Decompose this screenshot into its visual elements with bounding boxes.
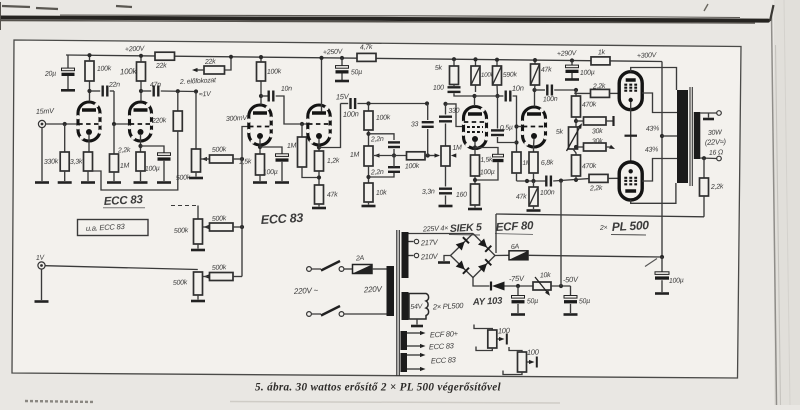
- wire screen tap lower 43%: [642, 159, 677, 182]
- svg-text:22n: 22n: [108, 81, 121, 89]
- capacitor 22n coupling: [87, 89, 91, 93]
- resistor 2,2k upper grid stopper: [575, 90, 591, 93]
- svg-text:50µ: 50µ: [579, 298, 591, 306]
- ground 54V box: [416, 319, 418, 325]
- wire cathode tap to 15V node: [319, 104, 341, 148]
- output transformer core: [689, 87, 691, 186]
- fuse 2A: [353, 265, 373, 274]
- svg-text:220k: 220k: [151, 117, 167, 125]
- svg-text:47k: 47k: [327, 191, 339, 199]
- svg-text:2,2n: 2,2n: [370, 136, 384, 144]
- svg-text:50µ: 50µ: [527, 298, 539, 306]
- wire mixer bus to V2a grid: [242, 127, 249, 277]
- resistor 1M grid leak V4: [512, 152, 521, 173]
- ground at output: [708, 113, 710, 118]
- svg-text:500k: 500k: [212, 264, 227, 272]
- svg-text:5. ábra. 30 wattos erősítő 2 ×: 5. ábra. 30 wattos erősítő 2 × PL 500 vé…: [255, 381, 502, 393]
- resistor 5k screen feed: [452, 57, 456, 61]
- svg-text:100µ: 100µ: [480, 169, 495, 177]
- svg-text:3,3n: 3,3n: [422, 188, 435, 196]
- resistor 1k (supply dropper): [591, 57, 610, 65]
- capacitor 2,2n treble lower: [369, 172, 395, 178]
- svg-text:47k: 47k: [541, 66, 553, 74]
- svg-text:10n: 10n: [512, 83, 524, 93]
- svg-text:20µ: 20µ: [44, 70, 57, 78]
- svg-text:100k: 100k: [120, 67, 138, 77]
- input terminal 15mV: [38, 120, 45, 127]
- resistor 470k lower: [573, 149, 576, 155]
- svg-text:217V: 217V: [420, 238, 439, 248]
- svg-text:-50V: -50V: [563, 275, 580, 285]
- triode V2b ECC83 cathode follower: [308, 105, 330, 145]
- fuse 6A: [509, 251, 528, 260]
- wire V6 anode to transformer: [631, 183, 676, 203]
- wire 6A fuse to reservoir: [528, 255, 662, 257]
- svg-text:220V ~: 220V ~: [293, 286, 319, 296]
- svg-text:100: 100: [433, 84, 445, 92]
- svg-text:50µ: 50µ: [351, 69, 363, 77]
- svg-text:22k: 22k: [204, 58, 217, 66]
- svg-text:500k: 500k: [173, 279, 188, 287]
- resistor 2,2k cathode V1b: [136, 152, 145, 171]
- svg-text:0,5µ: 0,5µ: [500, 124, 513, 132]
- wire V4 cathode: [533, 139, 536, 152]
- resistor 22k (supply dropper): [155, 52, 175, 60]
- wire V1a anode up: [89, 81, 91, 101]
- svg-text:30k: 30k: [592, 128, 604, 136]
- wire V4 grid: [517, 126, 522, 128]
- svg-text:100n: 100n: [343, 109, 359, 119]
- resistor 30k lower with arrow: [576, 146, 584, 148]
- capacitor 100 screen bypass: [453, 85, 455, 87]
- wire tone out to V3 grid: [446, 104, 464, 127]
- svg-text:10k: 10k: [376, 189, 388, 197]
- svg-text:(22V≈): (22V≈): [705, 137, 727, 147]
- svg-text:16 Ω: 16 Ω: [709, 149, 724, 157]
- resistor 2,2k feedback: [703, 158, 705, 178]
- capacitor 50u bias 1: [517, 286, 519, 296]
- mains switch upper: [307, 267, 312, 272]
- page right edge shadow: [774, 0, 800, 405]
- resistor 3,3k cathode V1a: [84, 152, 93, 171]
- junction HT: [660, 255, 664, 259]
- top-left margin marks: [2, 6, 132, 9]
- wire V1a cathode to 3,3k: [88, 134, 90, 152]
- svg-text:33: 33: [411, 121, 419, 128]
- capacitor 47n coupling: [139, 89, 143, 93]
- svg-text:1M: 1M: [350, 152, 360, 159]
- svg-text:100n: 100n: [543, 96, 558, 104]
- svg-text:160: 160: [456, 191, 468, 199]
- capacitor 10n to V4 grid: [498, 95, 504, 97]
- mains transformer primary winding: [387, 266, 395, 316]
- svg-text:470k: 470k: [582, 101, 597, 109]
- svg-text:100k: 100k: [97, 65, 112, 73]
- capacitor 100u on +290V rail: [570, 58, 574, 62]
- resistor 500k #3 to bus: [210, 273, 234, 281]
- svg-text:300mV: 300mV: [226, 115, 249, 123]
- pentode V5 PL500 upper: [619, 72, 642, 110]
- svg-text:2×: 2×: [599, 225, 608, 232]
- capacitor 50u bias 2: [570, 286, 572, 296]
- wire V5 anode to transformer: [631, 68, 677, 91]
- svg-text:100µ: 100µ: [263, 169, 278, 177]
- svg-text:AY 103: AY 103: [472, 295, 504, 308]
- svg-text:1,5k: 1,5k: [480, 156, 493, 164]
- svg-text:3,3k: 3,3k: [70, 158, 83, 166]
- wire 22n to V1b grid: [114, 91, 129, 124]
- resistor 10k: [364, 183, 373, 202]
- svg-text:100k: 100k: [405, 163, 420, 171]
- svg-text:210V: 210V: [420, 252, 439, 262]
- svg-text:10k: 10k: [540, 272, 552, 280]
- wire V2a anode up: [260, 81, 262, 105]
- capacitor 3,3n: [445, 166, 447, 187]
- svg-text:5k: 5k: [435, 65, 443, 72]
- svg-text:1M: 1M: [452, 145, 462, 152]
- svg-text:43%: 43%: [645, 146, 659, 154]
- diode bridge bottom-left: [456, 261, 465, 270]
- resistor 100k anode load V1b: [137, 62, 146, 81]
- potentiometer 500k #3: [194, 272, 203, 295]
- potentiometer 1M tone: [364, 146, 373, 166]
- wire +200V..+300V top supply rail: [66, 55, 662, 62]
- svg-text:+200V: +200V: [125, 45, 146, 53]
- resistor 30k upper with stub: [576, 120, 584, 122]
- svg-text:1M: 1M: [120, 163, 130, 170]
- svg-text:100n: 100n: [540, 189, 555, 197]
- resistor 100k anode load V3 (hatched): [475, 59, 477, 66]
- svg-text:30W: 30W: [708, 129, 724, 137]
- wire input to V1 grid: [46, 123, 77, 125]
- resistor 500k #1 to bus: [210, 155, 234, 163]
- resistor 100k tone: [368, 104, 370, 112]
- resistor 100k wiper link: [374, 155, 406, 157]
- pentode V6 PL500 lower (inverted): [619, 162, 642, 200]
- svg-text:6,8k: 6,8k: [541, 159, 554, 167]
- svg-text:220V: 220V: [363, 285, 383, 295]
- svg-text:1,2k: 1,2k: [327, 157, 340, 165]
- wire V5 cathode down: [630, 102, 632, 163]
- wire secondary bottom to output terminal: [700, 157, 716, 160]
- box u.a. ECC 83: [78, 220, 149, 236]
- svg-text:100k: 100k: [267, 68, 282, 76]
- scan streak top: [0, 18, 768, 21]
- cathode junction bar: [625, 135, 638, 137]
- wire V4 anode up: [534, 90, 536, 107]
- stray stroke: [645, 259, 657, 267]
- capacitor 100u reservoir: [661, 257, 663, 272]
- svg-text:SIEK 5: SIEK 5: [450, 221, 483, 235]
- svg-text:1M: 1M: [287, 143, 297, 150]
- capacitor 100u cathode bypass V1b: [141, 146, 165, 154]
- svg-text:2A: 2A: [355, 255, 365, 262]
- svg-text:1,5k: 1,5k: [239, 158, 252, 166]
- svg-text:22k: 22k: [155, 62, 168, 70]
- svg-text:15V: 15V: [336, 92, 350, 102]
- svg-text:2,2k: 2,2k: [710, 183, 724, 191]
- potentiometer 10k bias: [533, 282, 551, 290]
- capacitor 10n coupling: [261, 95, 269, 97]
- svg-text:2,2k: 2,2k: [592, 83, 606, 91]
- wire V2a cathode: [259, 139, 261, 154]
- resistor 47k (hatched) to ground: [533, 181, 535, 187]
- capacitor 100n coupling from cathode: [341, 103, 349, 105]
- bridge rectifier SIEK5 diamond: [451, 234, 496, 278]
- svg-text:100µ: 100µ: [669, 277, 684, 285]
- svg-text:2,2n: 2,2n: [370, 169, 384, 177]
- output transformer primary winding: [677, 90, 688, 183]
- diode bridge top-right: [478, 239, 487, 248]
- svg-text:47k: 47k: [516, 193, 528, 201]
- wire V2b cathode node: [318, 139, 320, 151]
- svg-text:+300V: +300V: [637, 52, 658, 60]
- svg-text:ECC 83: ECC 83: [429, 341, 455, 351]
- resistor 4,7k (supply dropper): [357, 53, 376, 61]
- wire switch lower to primary: [344, 313, 387, 315]
- wire switch to fuse: [344, 268, 353, 270]
- wire fuse to primary: [372, 268, 387, 270]
- potentiometer 5k balance: [569, 127, 578, 149]
- capacitor 50u on +250V rail: [340, 56, 344, 60]
- wire feed to 2nd preamp with arrow: [225, 57, 232, 70]
- capacitor 100n coupling to upper PL500: [535, 89, 546, 91]
- svg-text:330k: 330k: [44, 158, 59, 166]
- capacitor 33: [427, 104, 429, 121]
- resistor 470k upper: [575, 90, 577, 96]
- wire input2 to pot3: [45, 266, 198, 270]
- wire anode node: [475, 95, 498, 97]
- humdinger resistor 100 #1: [474, 325, 492, 331]
- svg-text:2× PL500: 2× PL500: [432, 301, 465, 312]
- output transformer secondary winding: [694, 112, 701, 159]
- wire centre tap to transformer: [662, 135, 677, 137]
- capacitor 2,2n treble upper: [369, 134, 395, 140]
- ground input: [35, 181, 49, 184]
- capacitor 0,5u: [497, 96, 499, 129]
- resistor 1,5k cathode V2a: [256, 154, 265, 175]
- mains switch lower: [307, 312, 312, 317]
- pentode V3 ECF80: [464, 107, 487, 149]
- resistor 100k anode load V1a: [85, 61, 94, 81]
- svg-text:100k: 100k: [376, 114, 391, 122]
- capacitor 330: [443, 102, 447, 106]
- svg-text:330: 330: [448, 107, 460, 115]
- triode V1b ECC83: [130, 102, 152, 141]
- ground bridge left corner: [444, 256, 451, 262]
- svg-text:500k: 500k: [176, 174, 191, 182]
- wire AY103 to 10k: [505, 285, 534, 287]
- mains transformer core: [396, 230, 398, 376]
- wire feedback line to PSU: [496, 214, 704, 217]
- svg-text:30k: 30k: [592, 138, 604, 146]
- svg-text:54V: 54V: [410, 303, 424, 311]
- input terminal 1V: [38, 262, 45, 269]
- wire screen tap upper 43%: [642, 93, 677, 113]
- wire V3 cathode chain: [474, 142, 476, 155]
- potentiometer 500k #1: [195, 92, 197, 149]
- resistor 6,8k cathode V4: [529, 152, 538, 173]
- svg-text:1k: 1k: [598, 49, 606, 56]
- svg-text:15mV: 15mV: [36, 106, 56, 116]
- wire bridge to 6A fuse: [495, 254, 509, 256]
- wire secondary top to output terminal: [700, 112, 716, 114]
- capacitor 100n coupling to lower PL500: [545, 176, 547, 187]
- heater winding ECC83: [401, 353, 408, 372]
- svg-text:2,2k: 2,2k: [117, 147, 131, 155]
- wire +300V vertical feed: [661, 62, 663, 258]
- svg-text:ECF 80: ECF 80: [496, 220, 535, 234]
- svg-text:ECC 83: ECC 83: [431, 355, 457, 365]
- triode V2a ECC83: [249, 105, 271, 145]
- diode bridge bottom-right: [478, 264, 487, 273]
- tap 217V: [409, 241, 414, 243]
- triode V4 ECF80: [523, 107, 546, 147]
- diode bridge top-left: [456, 242, 465, 251]
- svg-text:225V 4×: 225V 4×: [422, 223, 449, 233]
- heater winding ECF80+ECC83: [401, 331, 408, 350]
- svg-text:ECC 83: ECC 83: [260, 211, 303, 227]
- svg-text:43%: 43%: [646, 125, 660, 133]
- svg-text:470k: 470k: [582, 163, 597, 171]
- resistor 330k grid leak: [64, 124, 66, 152]
- tap 210V: [409, 255, 414, 257]
- resistor 590k (hatched): [496, 60, 498, 66]
- capacitor 100u cathode bypass V2a: [260, 147, 282, 155]
- resistor 100k anode load V2a: [257, 62, 266, 81]
- wire V2b anode to rail: [321, 58, 323, 112]
- resistor 1M grid leak V2b: [301, 124, 303, 137]
- resistor 1M grid leak V1b: [113, 124, 115, 154]
- HV secondary winding 225V: [402, 232, 409, 278]
- svg-text:2,2k: 2,2k: [589, 185, 603, 193]
- svg-text:10n: 10n: [281, 85, 293, 93]
- svg-text:590k: 590k: [503, 71, 518, 79]
- svg-text:≈1V: ≈1V: [199, 91, 213, 99]
- wire 225V to bridge: [409, 233, 474, 235]
- svg-text:500k: 500k: [174, 227, 189, 235]
- svg-text:-75V: -75V: [509, 274, 526, 284]
- wire V1b cathode: [140, 134, 142, 152]
- wire cathode node to 100n: [517, 180, 547, 182]
- svg-text:47n: 47n: [150, 81, 162, 89]
- svg-text:500k: 500k: [212, 146, 227, 154]
- svg-text:ECC 83: ECC 83: [104, 194, 144, 208]
- wire V1b anode up: [140, 81, 142, 101]
- svg-text:ECF 80+: ECF 80+: [430, 329, 459, 339]
- capacitor 100u bypass V3: [475, 148, 498, 156]
- svg-text:100: 100: [498, 326, 511, 336]
- wire pot1M bottom: [368, 166, 370, 183]
- 54V winding box: [409, 294, 429, 320]
- humdinger resistor 100 #2: [509, 347, 522, 352]
- diode AY103: [492, 282, 505, 291]
- wire input down to ground: [41, 128, 43, 181]
- resistor 1,2k: [315, 151, 324, 171]
- triode V1a ECC83: [78, 102, 100, 141]
- wire input2 to ground: [41, 269, 43, 300]
- resistor 220k: [177, 91, 179, 111]
- resistor 47k: [315, 185, 324, 204]
- svg-text:100µ: 100µ: [580, 69, 595, 77]
- bottom smudge: [25, 401, 95, 402]
- wire V3 anode up: [474, 96, 476, 106]
- wire bridge bottom to AY103: [473, 278, 490, 287]
- potentiometer 1M presence: [441, 146, 450, 166]
- capacitor 20u input filter: [67, 55, 69, 69]
- svg-text:PL 500: PL 500: [611, 218, 649, 234]
- svg-text:6A: 6A: [511, 244, 520, 251]
- svg-text:+250V: +250V: [323, 48, 344, 56]
- schematic frame border: [12, 40, 741, 378]
- svg-text:500k: 500k: [212, 215, 227, 223]
- resistor 2,2k lower grid stopper: [589, 174, 608, 182]
- wire 220k down to feedback line: [92, 131, 178, 190]
- svg-text:100µ: 100µ: [145, 165, 160, 173]
- resistor 22k to 2nd preamp: [204, 66, 225, 74]
- resistor 500k #2 to bus: [210, 223, 234, 231]
- svg-text:5k: 5k: [556, 129, 564, 136]
- wire 10k to -50V node: [551, 285, 571, 287]
- wire -50V up to bias network: [560, 181, 562, 286]
- resistor 1,5k cathode V3: [471, 155, 480, 176]
- svg-text:100: 100: [527, 347, 540, 357]
- svg-text:+290V: +290V: [557, 50, 578, 58]
- potentiometer 500k #2: [197, 206, 199, 220]
- heater winding 54V: [402, 292, 409, 320]
- dashed gang link: [171, 205, 197, 207]
- resistor 160: [474, 176, 476, 184]
- svg-text:4,7k: 4,7k: [360, 44, 373, 52]
- resistor 47k anode load V4 (hatched): [534, 60, 536, 64]
